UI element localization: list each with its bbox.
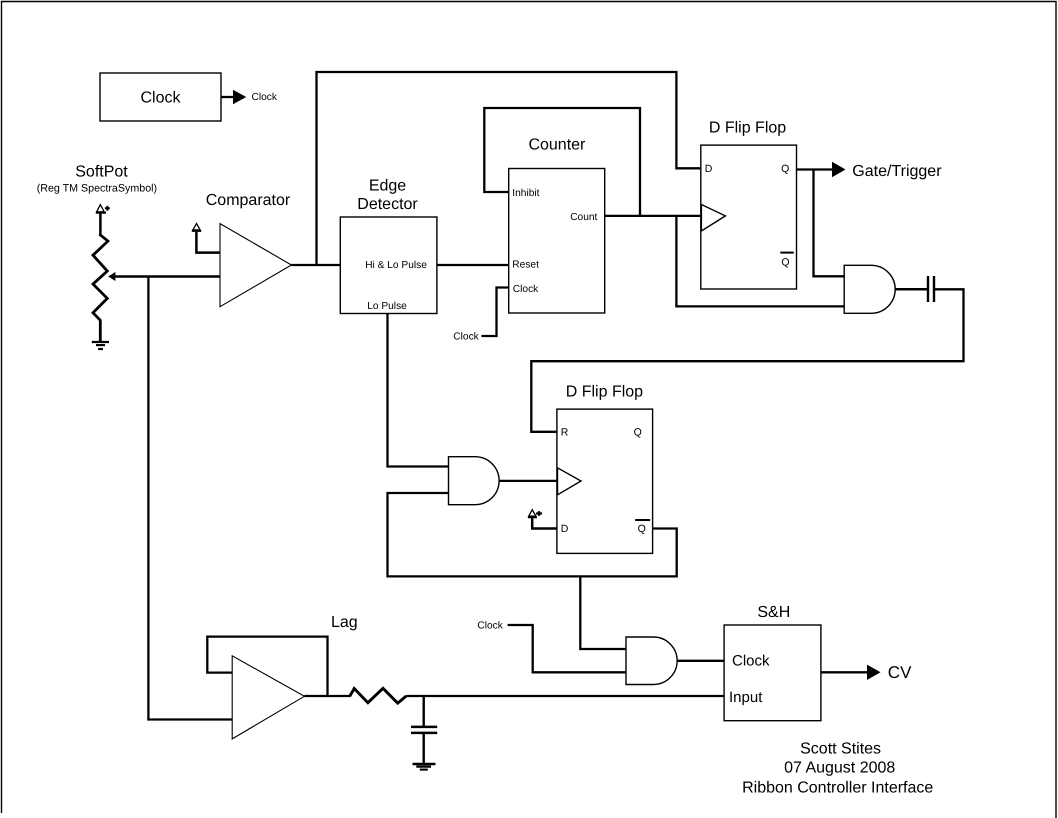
svg-text:Q: Q	[638, 523, 646, 535]
wire: Lag output	[304, 695, 350, 697]
svg-text:Q: Q	[634, 427, 642, 439]
svg-text:(Reg TM SpectraSymbol): (Reg TM SpectraSymbol)	[37, 183, 157, 195]
wire: S&H output to CV arrow	[821, 663, 912, 682]
credits	[742, 741, 933, 797]
S&H box	[724, 604, 821, 721]
comparator U1	[206, 192, 292, 307]
ground (C2)	[413, 764, 436, 770]
svg-text:R: R	[561, 427, 569, 439]
resistor R2 (lag output)	[350, 688, 406, 703]
svg-text:Scott Stites: Scott Stites	[800, 741, 881, 758]
svg-text:Gate/Trigger: Gate/Trigger	[852, 163, 942, 180]
wire: AND U6 output to S&H clock	[677, 660, 724, 662]
comparator + input (+V ref)	[192, 224, 220, 253]
wire: resistor to S&H input	[406, 695, 724, 697]
svg-text:Lo Pulse: Lo Pulse	[367, 301, 407, 312]
ground (SoftPot)	[92, 342, 109, 349]
svg-text:D: D	[561, 523, 569, 535]
wire: AND output to capacitor	[895, 288, 927, 291]
svg-text:Lag: Lag	[331, 614, 358, 631]
wire: comparator output feedback to top D flip flop D input	[317, 72, 701, 265]
SoftPot wiper arrow	[108, 272, 220, 281]
svg-text:Count: Count	[570, 212, 597, 223]
svg-text:Q: Q	[781, 256, 789, 268]
clock source box	[100, 73, 221, 121]
svg-text:Comparator: Comparator	[206, 192, 291, 209]
svg-text:Clock: Clock	[477, 621, 503, 632]
counter box	[509, 136, 605, 313]
svg-text:Counter: Counter	[528, 136, 586, 153]
SoftPot label	[37, 164, 157, 195]
wire: counter Count output to D flip flop clock	[605, 215, 701, 217]
wire: count line branch down to AND gate B input	[676, 216, 844, 307]
svg-text:Hi & Lo Pulse: Hi & Lo Pulse	[365, 260, 427, 271]
wire: feedback branch down to bottom AND A input	[580, 576, 626, 649]
SoftPot +V terminal	[96, 205, 110, 234]
wire: Q output to Gate/Trigger arrow	[797, 162, 943, 180]
svg-text:Clock: Clock	[732, 652, 770, 669]
AND gate U5 (middle)	[449, 457, 500, 505]
wire: wiper junction down to Lag input	[148, 277, 232, 720]
capacitor C2 (to ground)	[411, 696, 437, 764]
D flip flop (top)	[701, 120, 797, 289]
svg-text:D: D	[705, 163, 713, 175]
wire: Hi & Lo Pulse to counter Reset	[437, 264, 509, 266]
svg-text:SoftPot: SoftPot	[75, 164, 128, 181]
svg-text:S&H: S&H	[757, 604, 790, 621]
svg-text:Reset: Reset	[512, 260, 539, 271]
svg-text:D Flip Flop: D Flip Flop	[566, 384, 643, 401]
svg-text:Q: Q	[781, 163, 789, 175]
svg-text:Clock: Clock	[252, 92, 278, 103]
svg-text:Edge: Edge	[369, 178, 406, 195]
svg-text:Clock: Clock	[513, 284, 539, 295]
wire: Lo Pulse down to AND gate A input	[388, 314, 449, 467]
svg-text:Ribbon Controller Interface: Ribbon Controller Interface	[742, 780, 933, 797]
svg-text:CV: CV	[888, 663, 912, 682]
wire: AND U5 output to flip flop clock	[499, 480, 557, 482]
wire: Qbar feedback to AND U5 B input	[388, 493, 677, 576]
svg-text:07 August 2008: 07 August 2008	[784, 760, 895, 777]
wire: counter inhibit feedback loop	[484, 108, 640, 216]
svg-text:Inhibit: Inhibit	[512, 188, 539, 199]
Lag op-amp	[207, 614, 357, 739]
svg-text:Clock: Clock	[453, 332, 479, 343]
clock stub into bottom AND	[477, 621, 626, 673]
svg-text:D Flip Flop: D Flip Flop	[709, 120, 786, 137]
svg-text:Clock: Clock	[140, 90, 181, 107]
wire: Q branch down to AND gate A input	[814, 170, 845, 277]
edge detector box	[340, 178, 437, 314]
+V symbol at middle flip flop D input	[528, 510, 557, 529]
AND gate U4 (gate/trigger pulse)	[844, 265, 895, 313]
clock output arrow	[221, 90, 278, 105]
wire: comparator output	[291, 264, 340, 266]
SoftPot resistor element	[93, 234, 108, 342]
wire: capacitor to middle flip flop R input	[531, 289, 963, 432]
AND gate U6 (S&H clock)	[626, 637, 677, 685]
svg-text:Input: Input	[729, 689, 763, 706]
svg-text:Detector: Detector	[357, 196, 418, 213]
clock stub into counter	[453, 288, 508, 343]
capacitor C1 (series)	[928, 276, 934, 302]
D flip flop (middle)	[557, 384, 653, 554]
